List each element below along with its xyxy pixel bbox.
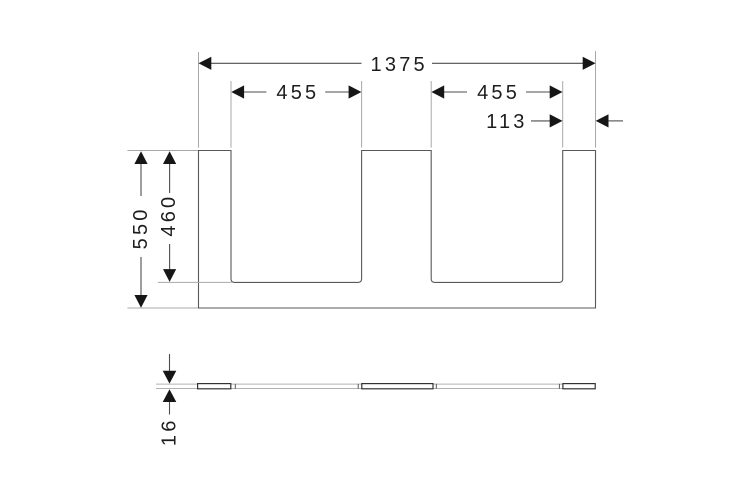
dimension 1375 line right segment — [432, 62, 591, 64]
svg-text:113: 113 — [486, 111, 528, 133]
extension line slot bottom left (460) — [158, 281, 232, 283]
dimension 455 right: line segments — [444, 91, 467, 93]
dimension 113 arrow left (points right) — [550, 114, 563, 127]
dimension 460 arrow bottom — [163, 269, 176, 282]
dimension 1375 line left segment — [203, 62, 362, 64]
dimension 455 left arrow right — [349, 85, 362, 98]
svg-text:16: 16 — [158, 417, 180, 446]
dimension 1375 arrow right — [583, 57, 596, 70]
plate outline (top view with two open slots) — [199, 151, 596, 309]
svg-text:1375: 1375 — [371, 54, 428, 76]
extension line bottom edge left (550) — [127, 307, 198, 309]
dimension 455 left arrow left — [231, 85, 244, 98]
extension line left edge (1375) — [198, 52, 200, 148]
extension line slot2 left (455) — [430, 81, 432, 148]
extension line slot1 right (455) — [361, 81, 363, 148]
extension line slot1 left (455) — [230, 81, 232, 148]
dimension 455 right arrow right — [550, 85, 563, 98]
front view tick slot2 left — [435, 384, 437, 389]
dimension 113 line segment — [531, 120, 550, 122]
front view tick slot2 right — [558, 384, 560, 389]
extension line slot2 right (455 / 113) — [562, 81, 564, 148]
svg-text:455: 455 — [477, 82, 520, 104]
front view left tab — [198, 384, 231, 389]
dimension 460 arrow top — [163, 151, 176, 164]
dimension 455 left: line segments — [244, 91, 267, 93]
dimension 16 lower line — [169, 402, 171, 415]
front view tick slot1 left — [234, 384, 236, 389]
front view top surface line — [156, 383, 596, 385]
front view bottom surface line — [156, 388, 596, 390]
dimension 113 tail line — [609, 120, 624, 122]
dimension 113 arrow right (points left) — [596, 114, 609, 127]
extension line top edge left (550/460) — [127, 150, 198, 152]
dimension 455 right arrow left — [431, 85, 444, 98]
dimension 16 arrow down — [163, 371, 177, 384]
dimension 550 arrow top — [134, 151, 147, 164]
dimension 16 arrow up — [163, 389, 177, 402]
dimension 460 line segments — [169, 162, 171, 193]
svg-text:550: 550 — [130, 206, 152, 249]
svg-text:455: 455 — [276, 82, 319, 104]
svg-text:460: 460 — [158, 194, 180, 237]
front view tick slot1 right — [357, 384, 359, 389]
front view middle tab — [362, 384, 433, 389]
front view right tab — [563, 384, 595, 389]
dimension 550 arrow bottom — [134, 295, 147, 308]
extension line right edge (1375 / 113) — [595, 51, 597, 148]
dimension 550 line segments — [140, 162, 142, 196]
dimension 1375 arrow left — [199, 57, 212, 70]
dimension 16 upper line — [169, 354, 171, 371]
